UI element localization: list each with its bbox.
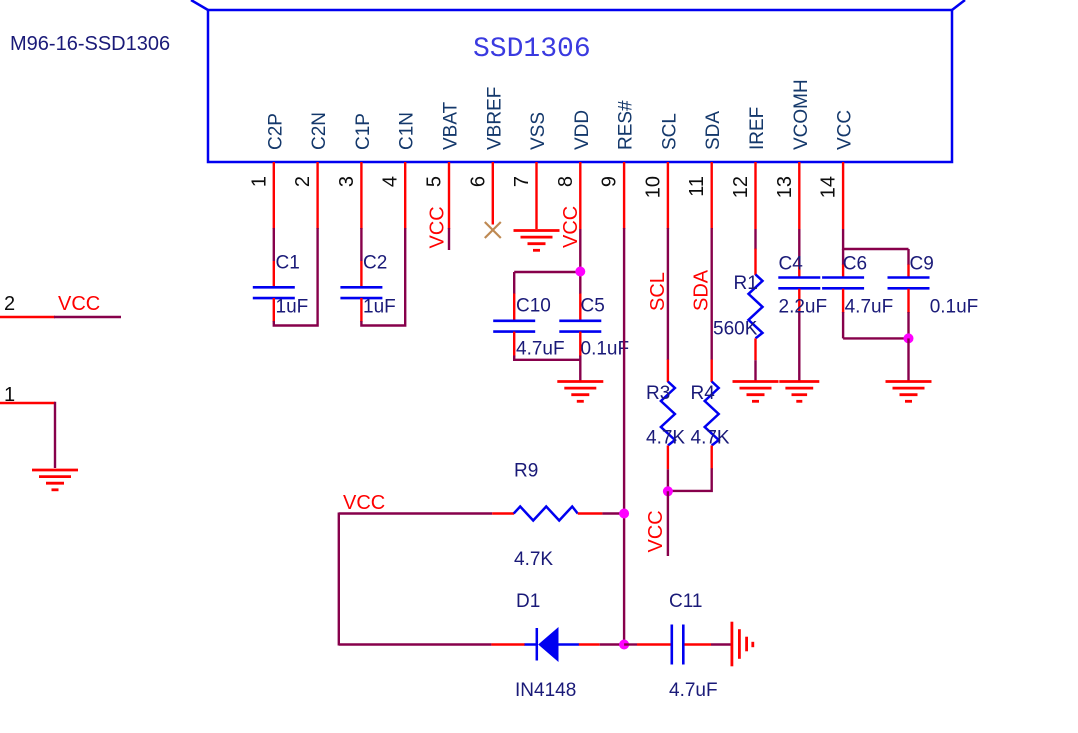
- wire pin1 left maroon: [54, 403, 55, 468]
- wire R3 top stub: [667, 360, 669, 383]
- capacitor C2: [340, 287, 382, 298]
- svg-text:4.7K: 4.7K: [691, 428, 730, 449]
- svg-text:C2: C2: [363, 253, 387, 274]
- svg-text:C2N: C2N: [309, 112, 330, 150]
- svg-text:11: 11: [686, 176, 708, 197]
- junction R3 R4: [663, 486, 673, 496]
- svg-text:VSS: VSS: [528, 112, 549, 150]
- svg-text:C1: C1: [276, 253, 300, 274]
- svg-text:SDA: SDA: [703, 111, 724, 150]
- svg-text:R1: R1: [734, 273, 758, 294]
- svg-text:5: 5: [424, 176, 446, 187]
- svg-text:VCC: VCC: [645, 510, 667, 552]
- svg-text:4.7uF: 4.7uF: [516, 339, 565, 360]
- svg-text:D1: D1: [516, 591, 540, 612]
- capacitor C5: [559, 321, 601, 332]
- wire junction to ground: [907, 338, 909, 381]
- svg-text:4.7uF: 4.7uF: [845, 297, 894, 318]
- pin 3 C1P stub: [360, 162, 362, 229]
- pin 6 VBREF stub: [492, 162, 494, 225]
- svg-text:4.7K: 4.7K: [514, 549, 553, 570]
- wire pin2 left maroon: [54, 316, 121, 318]
- svg-text:VCC: VCC: [58, 293, 100, 315]
- svg-text:1: 1: [248, 176, 270, 187]
- wire VCC left vertical: [338, 513, 340, 646]
- svg-text:560K: 560K: [713, 319, 758, 340]
- capacitor C11: [672, 625, 684, 665]
- svg-text:C9: C9: [910, 254, 934, 275]
- wire pin14 down: [842, 229, 844, 250]
- svg-text:IREF: IREF: [747, 107, 768, 150]
- svg-text:RES#: RES#: [616, 100, 637, 150]
- svg-text:2: 2: [292, 176, 314, 187]
- svg-text:10: 10: [642, 176, 664, 198]
- no-connect X pin6: [485, 222, 501, 238]
- wire VCC to R9: [339, 512, 492, 514]
- wire C10 bottom: [513, 332, 515, 357]
- wire pin1 to C1: [273, 228, 275, 261]
- wire C6 bottom horizontal: [843, 337, 908, 339]
- svg-text:4.7uF: 4.7uF: [669, 680, 718, 701]
- svg-text:VDD: VDD: [572, 110, 593, 150]
- wire C9 bottom: [907, 289, 909, 313]
- wire D1 to junction: [579, 643, 600, 645]
- wire C4 bottom to ground: [798, 289, 800, 313]
- svg-text:VCC: VCC: [560, 206, 582, 248]
- pin 4 C1N stub: [404, 162, 406, 229]
- svg-text:VBREF: VBREF: [484, 87, 505, 150]
- wire R4 bottom: [711, 446, 713, 470]
- svg-text:C1N: C1N: [397, 112, 418, 150]
- svg-text:4: 4: [380, 176, 402, 187]
- pin 2 C2N stub: [316, 162, 318, 229]
- svg-text:R3: R3: [646, 383, 670, 404]
- diode D1: [525, 628, 580, 661]
- wire C2 to pin4: [360, 298, 362, 322]
- svg-text:SCL: SCL: [659, 113, 680, 150]
- wire R9 to RES#: [578, 512, 603, 514]
- wire pin13 down: [798, 229, 800, 265]
- wire to C5: [579, 272, 581, 294]
- wire pin2 left red: [0, 316, 55, 318]
- wire C5 bottom to ground: [579, 332, 581, 357]
- pin 11 SDA stub: [711, 162, 713, 229]
- svg-text:3: 3: [336, 176, 358, 187]
- svg-text:M96-16-SSD1306: M96-16-SSD1306: [10, 33, 170, 55]
- pin 7 VSS stub: [535, 162, 537, 229]
- svg-text:SCL: SCL: [647, 272, 669, 311]
- svg-text:0.1uF: 0.1uF: [581, 339, 630, 360]
- svg-text:C6: C6: [843, 254, 867, 275]
- svg-text:VCC: VCC: [835, 110, 856, 150]
- ground left: [32, 470, 78, 490]
- capacitor C9: [888, 278, 930, 289]
- wire pin5 VCC stub: [448, 228, 450, 250]
- wire VDD horizontal to C10: [514, 271, 580, 273]
- pin 14 VCC stub: [842, 162, 844, 229]
- resistor R3: [661, 382, 675, 446]
- wire R1 top stub: [754, 249, 756, 275]
- ground right of C11: [732, 622, 753, 667]
- wire C1 to pin2: [273, 298, 275, 322]
- junction pin8: [575, 267, 585, 277]
- wire R1 bottom: [754, 338, 756, 360]
- wire pin1 left red: [0, 402, 55, 404]
- wire to C6: [842, 249, 844, 265]
- svg-text:VCOMH: VCOMH: [791, 79, 812, 150]
- capacitor C10: [493, 321, 535, 332]
- wire R4 top stub: [711, 360, 713, 383]
- wire R3 bottom: [667, 446, 669, 470]
- svg-text:R9: R9: [514, 461, 538, 482]
- resistor R1: [749, 274, 763, 338]
- svg-text:13: 13: [774, 176, 796, 198]
- svg-text:VCC: VCC: [343, 492, 385, 514]
- svg-text:4.7K: 4.7K: [646, 428, 685, 449]
- junction C6 C9: [904, 333, 914, 343]
- ground C9: [886, 382, 932, 402]
- pin 9 RES# stub: [623, 162, 625, 229]
- wire junction to C11: [624, 643, 637, 645]
- svg-text:C5: C5: [581, 296, 605, 317]
- svg-text:7: 7: [511, 176, 533, 187]
- svg-text:SSD1306: SSD1306: [473, 34, 591, 65]
- svg-text:8: 8: [555, 176, 577, 187]
- pin 10 SCL stub: [667, 162, 669, 229]
- wire pin11 down: [711, 228, 713, 360]
- svg-text:1uF: 1uF: [276, 297, 309, 318]
- svg-text:12: 12: [730, 176, 752, 198]
- pin 1 C2P stub: [273, 162, 275, 229]
- wire pin14 horizontal to C9: [843, 248, 908, 250]
- ground C5: [557, 382, 603, 402]
- svg-text:C11: C11: [669, 591, 702, 612]
- wire pin3 to C2: [360, 228, 362, 261]
- svg-text:VCC: VCC: [427, 206, 449, 248]
- junction D1 C11 RES#: [619, 640, 629, 650]
- svg-text:VBAT: VBAT: [441, 101, 462, 150]
- op-amp U1 : SSD1306 module body: [191, 0, 965, 162]
- svg-text:9: 9: [599, 176, 621, 187]
- wire C4 top stub: [798, 265, 800, 279]
- svg-text:C10: C10: [516, 296, 551, 317]
- svg-text:IN4148: IN4148: [515, 680, 576, 701]
- svg-text:C2P: C2P: [265, 113, 286, 150]
- svg-text:1uF: 1uF: [363, 297, 396, 318]
- svg-text:C4: C4: [779, 254, 804, 275]
- capacitor C4: [778, 278, 820, 289]
- svg-text:6: 6: [467, 176, 489, 187]
- ground pin7 VSS: [514, 231, 560, 251]
- wire pin12 down: [754, 229, 756, 250]
- pin 8 VDD stub: [579, 162, 581, 229]
- pin 13 VCOMH stub: [798, 162, 800, 229]
- svg-text:R4: R4: [691, 383, 716, 404]
- wire pin10 down: [667, 228, 669, 360]
- wire C11 to ground: [685, 643, 712, 645]
- svg-text:2: 2: [4, 293, 15, 315]
- resistor R9: [514, 507, 578, 521]
- wire pin9 RES# vertical: [623, 228, 625, 645]
- svg-text:SDA: SDA: [691, 269, 713, 311]
- wire to C10: [513, 272, 515, 294]
- svg-text:14: 14: [818, 176, 840, 198]
- wire pin8 down: [579, 229, 581, 272]
- svg-text:2.2uF: 2.2uF: [779, 297, 828, 318]
- svg-text:C1P: C1P: [353, 113, 374, 150]
- capacitor C6: [822, 278, 864, 289]
- wire to VCC below R3: [667, 491, 669, 556]
- wire to C9: [907, 249, 909, 265]
- ground R1: [733, 382, 779, 402]
- capacitor C1: [253, 287, 295, 298]
- wire C6 bottom: [842, 289, 844, 313]
- pin 5 VBAT stub: [448, 162, 450, 229]
- resistor R4: [705, 382, 719, 446]
- junction R9 RES#: [619, 509, 629, 519]
- pin 12 IREF stub: [754, 162, 756, 229]
- svg-text:0.1uF: 0.1uF: [930, 297, 979, 318]
- wire to D1: [339, 643, 492, 645]
- ground C4: [779, 382, 819, 402]
